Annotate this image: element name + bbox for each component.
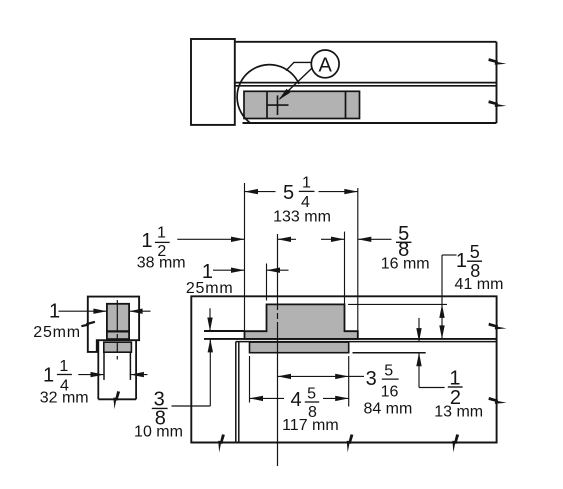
svg-text:1: 1 [157, 225, 166, 242]
dimension 4 5/8 / 117 mm [250, 397, 285, 399]
break mark right edge upper [488, 323, 506, 330]
break mark right edge lower [488, 397, 506, 404]
svg-text:16 mm: 16 mm [381, 256, 430, 273]
groove strip top line [204, 330, 245, 332]
svg-text:133 mm: 133 mm [273, 208, 331, 225]
dimension 3/8 / 10 mm (groove strip) [209, 308, 211, 331]
batten end section [104, 342, 132, 352]
svg-text:10 mm: 10 mm [134, 423, 183, 440]
svg-text:1: 1 [302, 174, 311, 191]
break mark left edge [81, 322, 95, 326]
extension line boss body left [266, 264, 268, 301]
boss body right edge (plan) [345, 91, 347, 118]
dimension 3 5/16 / 84 mm [278, 375, 349, 377]
apron end outline with lip [88, 297, 139, 352]
tenon hidden line left [103, 352, 105, 380]
screw center cross vertical [277, 95, 279, 115]
break mark bottom [113, 391, 120, 409]
svg-text:16: 16 [381, 383, 399, 400]
extension line batten left [249, 356, 251, 403]
svg-text:4: 4 [290, 389, 301, 411]
top board top edge [235, 41, 497, 43]
leg joint line right [238, 342, 240, 443]
svg-text:1: 1 [43, 364, 54, 386]
lower board bottom edge [243, 122, 497, 124]
centerline of screw [277, 234, 279, 466]
svg-text:1: 1 [59, 358, 68, 375]
svg-text:1: 1 [141, 230, 152, 252]
break mark upper right [488, 58, 506, 65]
boss body left edge (plan) [266, 91, 268, 118]
break mark bottom right [452, 434, 459, 452]
dimension 1/2 / 13 mm (board thickness) [418, 318, 420, 342]
svg-text:5: 5 [384, 363, 393, 380]
leader from detail arc to balloon [286, 62, 312, 70]
extension line boss top [348, 303, 447, 305]
svg-text:25mm: 25mm [33, 324, 81, 341]
bench top lower line [236, 341, 497, 343]
gray block (plan of boss flange) [244, 91, 360, 118]
break mark lower right [488, 100, 506, 107]
dimension 1 5/8 / 41 mm (boss height) [442, 254, 457, 256]
screw center cross horizontal [267, 104, 289, 106]
break mark bottom left [218, 434, 225, 452]
svg-text:38 mm: 38 mm [137, 255, 186, 272]
svg-text:41 mm: 41 mm [455, 276, 504, 293]
bench top upper line [204, 338, 497, 340]
break mark bottom middle [347, 434, 354, 452]
svg-text:5: 5 [470, 242, 480, 262]
dimension 5/8 / 16 mm [321, 238, 345, 240]
extension line flange right [357, 188, 359, 331]
end cap board [191, 39, 235, 125]
board bottom partial edge [353, 352, 426, 354]
apron outline [191, 296, 496, 442]
right broken end edge [496, 42, 498, 123]
boss (stepped block) front section [245, 304, 358, 339]
svg-text:A: A [319, 54, 333, 76]
svg-text:13 mm: 13 mm [434, 404, 483, 421]
svg-text:5: 5 [283, 182, 294, 204]
boss flange line [107, 330, 129, 332]
detail boundary arc [237, 65, 299, 124]
centerline small view [116, 300, 118, 360]
boss end section [107, 304, 129, 339]
leader arrow from balloon to screw center [280, 68, 313, 99]
top board bottom edge [235, 82, 497, 84]
svg-text:84 mm: 84 mm [363, 401, 412, 418]
joint line below top board [235, 85, 497, 87]
dimension 5 1/4 / 133 mm [245, 191, 276, 193]
svg-text:3: 3 [366, 368, 377, 390]
svg-text:1: 1 [456, 250, 467, 272]
svg-text:117 mm: 117 mm [282, 417, 339, 434]
extension line boss body right [344, 232, 346, 304]
detail balloon circle A [311, 50, 339, 78]
svg-text:25mm: 25mm [186, 280, 234, 297]
batten bar behind [250, 342, 349, 353]
leg below right edge [135, 341, 137, 399]
leg broken bottom [98, 398, 136, 400]
svg-text:5: 5 [307, 386, 316, 403]
extension line flange left [244, 183, 246, 330]
leg joint line left [235, 342, 237, 443]
svg-text:1: 1 [49, 301, 60, 323]
extension line batten right [348, 356, 350, 407]
svg-text:32 mm: 32 mm [40, 390, 89, 407]
tenon hidden line right [129, 352, 131, 380]
leg below left edge [97, 341, 99, 399]
